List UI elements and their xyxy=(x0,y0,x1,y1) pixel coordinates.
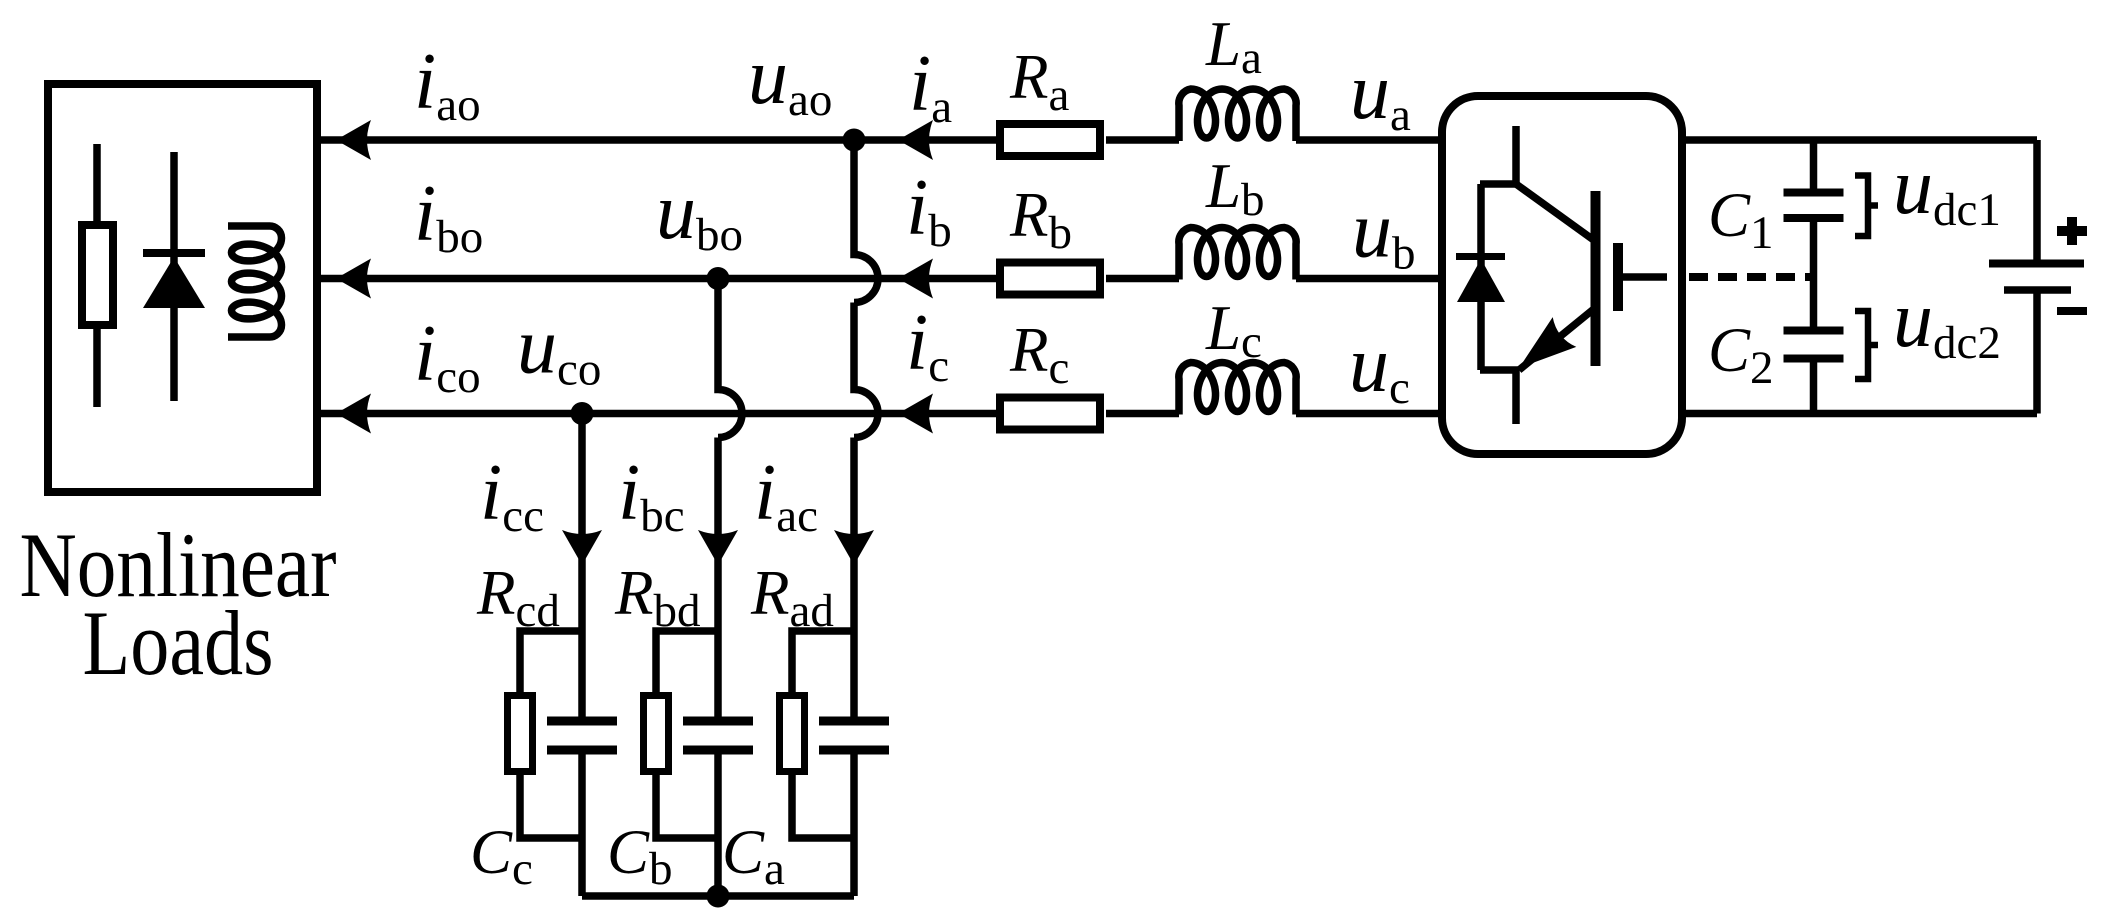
label R_ad xyxy=(750,558,834,637)
wire below C_b xyxy=(714,755,722,897)
arrow i_bo xyxy=(336,259,371,299)
label C2 xyxy=(1708,315,1774,394)
label L_b xyxy=(1205,151,1265,226)
arrow i_ao xyxy=(336,120,371,160)
label R_bd xyxy=(614,558,700,637)
IGBT emitter xyxy=(1519,308,1595,370)
arrow i_co xyxy=(336,394,371,434)
bottom bus junction xyxy=(707,885,730,908)
wire from u_co down xyxy=(578,414,586,717)
dc source plus xyxy=(2057,217,2087,245)
dc source positive rail xyxy=(2033,140,2041,260)
label R_b xyxy=(1009,180,1072,259)
label i_ac xyxy=(754,449,818,542)
dc cap wire lower xyxy=(1810,363,1818,414)
wire from u_ao down xyxy=(854,140,878,717)
label i_co xyxy=(414,310,481,403)
label C_b xyxy=(607,817,673,895)
label L_a xyxy=(1205,9,1262,84)
dc source negative rail xyxy=(2033,290,2041,414)
inductor L_c xyxy=(1179,363,1296,415)
arrow i_a xyxy=(898,120,933,160)
label i_c xyxy=(906,299,949,392)
node u_ao xyxy=(843,129,866,152)
converter diode xyxy=(1456,184,1505,370)
bracket u_dc1 xyxy=(1855,176,1878,237)
IGBT bottom wire xyxy=(1480,366,1519,374)
node u_co xyxy=(571,402,594,425)
label u_a xyxy=(1350,48,1411,141)
inductor L_a xyxy=(1179,89,1296,141)
resistor R_b xyxy=(1000,263,1100,295)
dc midpoint dashed wire xyxy=(1689,273,1814,281)
wire below C_a xyxy=(850,755,858,897)
capacitor C2 xyxy=(1784,331,1844,359)
load resistor xyxy=(82,144,113,407)
IGBT collector lead xyxy=(1512,126,1520,184)
resistor R_c xyxy=(1000,398,1100,430)
label u_ao xyxy=(748,33,832,126)
label u_bo xyxy=(656,168,743,261)
arrow i_c xyxy=(898,394,933,434)
dc source xyxy=(1989,264,2084,291)
arrow i_b xyxy=(898,259,933,299)
arrow i_cc xyxy=(562,530,602,565)
dc bottom rail xyxy=(1682,410,2037,418)
IGBT gate lead xyxy=(1618,273,1667,281)
load diode xyxy=(143,152,205,401)
label R_cd xyxy=(476,558,560,637)
resistor R_cd xyxy=(508,631,583,838)
label C_c xyxy=(470,817,533,895)
dc top rail xyxy=(1682,136,2037,144)
dc cap wire upper xyxy=(1810,140,1818,189)
wire phase c xyxy=(317,410,1442,418)
label i_b xyxy=(906,164,952,257)
resistor R_a xyxy=(1000,124,1100,156)
label Nonlinear Loads xyxy=(20,514,337,694)
label i_ao xyxy=(414,38,481,131)
nonlinear loads box xyxy=(48,84,317,492)
IGBT gate bar xyxy=(1613,243,1623,311)
capacitor C1 xyxy=(1784,193,1844,219)
label L_c xyxy=(1205,293,1262,368)
label R_a xyxy=(1009,42,1069,121)
node u_bo xyxy=(707,267,730,290)
label u_b xyxy=(1352,187,1416,280)
label i_bo xyxy=(414,170,483,263)
label u_co xyxy=(517,303,601,396)
converter box xyxy=(1442,96,1682,454)
label C1 xyxy=(1708,180,1774,259)
label u_c xyxy=(1349,321,1410,414)
resistor R_ad xyxy=(780,631,855,838)
IGBT emitter lead xyxy=(1512,370,1520,424)
wire below C_c xyxy=(578,755,586,897)
wire from u_bo down xyxy=(718,279,742,717)
label u_dc1 xyxy=(1893,143,2001,236)
wire phase a xyxy=(317,136,1442,144)
arrow i_bc xyxy=(698,530,738,565)
bottom bus wire xyxy=(582,892,854,900)
label u_dc2 xyxy=(1893,276,2001,369)
label i_a xyxy=(909,40,952,133)
resistor R_bd xyxy=(644,631,719,838)
label i_bc xyxy=(618,449,685,542)
capacitor C_a xyxy=(819,721,889,750)
label i_cc xyxy=(480,449,544,542)
label R_c xyxy=(1009,315,1069,394)
IGBT top wire xyxy=(1480,184,1595,241)
label C_a xyxy=(722,817,785,895)
arrow i_ac xyxy=(834,530,874,565)
dc cap wire middle xyxy=(1810,222,1818,327)
dc source minus xyxy=(2057,307,2087,315)
bracket u_dc2 xyxy=(1855,311,1878,379)
wire phase b xyxy=(317,275,1442,283)
capacitor C_c xyxy=(547,721,617,750)
svg-text:Loads: Loads xyxy=(83,592,274,694)
IGBT body bar xyxy=(1591,191,1601,366)
capacitor C_b xyxy=(683,721,753,750)
load inductor xyxy=(228,226,282,337)
inductor L_b xyxy=(1179,228,1296,280)
